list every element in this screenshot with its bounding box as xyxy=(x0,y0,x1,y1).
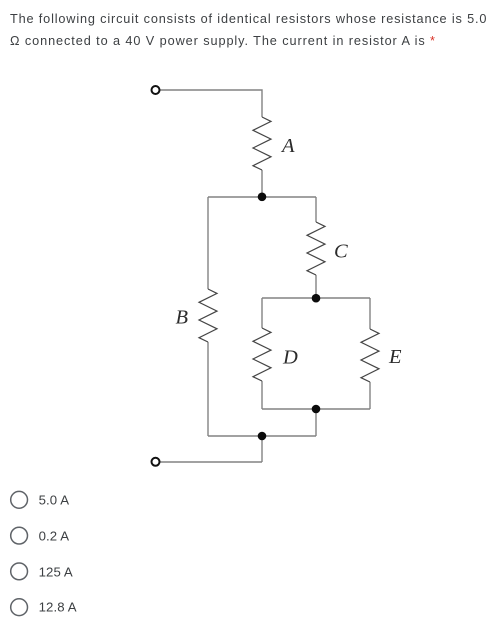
node junction 1 xyxy=(258,193,267,202)
wire resistor B bottom to bottom rail xyxy=(207,342,209,436)
wire resistor C bottom to node2 xyxy=(315,275,317,298)
resistor C xyxy=(307,222,325,275)
svg-text:A: A xyxy=(280,135,295,157)
wire E bottom xyxy=(369,382,371,409)
node junction 2 xyxy=(312,294,321,303)
wire node2 horizontal xyxy=(262,297,370,299)
wire top terminal to corner xyxy=(160,90,262,117)
wire node3 down xyxy=(315,409,317,436)
wire E branch top xyxy=(369,298,371,329)
svg-text:C: C xyxy=(334,241,348,263)
radio option 1 xyxy=(11,491,28,508)
option 3 radio xyxy=(0,560,300,584)
node junction 4 xyxy=(258,432,267,441)
wire to bottom terminal xyxy=(160,461,262,463)
wire left branch down to resistor B xyxy=(207,197,209,289)
option 2 radio xyxy=(0,524,300,548)
svg-text:B: B xyxy=(176,306,189,328)
radio option 4 xyxy=(11,599,28,616)
resistor D xyxy=(253,328,271,381)
wire bottom of DE pair xyxy=(262,408,370,410)
wire D branch top xyxy=(261,298,263,328)
svg-text:E: E xyxy=(388,346,402,368)
option 1 radio xyxy=(0,488,300,512)
terminal top xyxy=(152,86,160,94)
terminal bottom xyxy=(152,458,160,466)
wire right branch down to resistor C xyxy=(315,197,317,222)
wire D bottom xyxy=(261,381,263,409)
wire node4 down to terminal rail xyxy=(261,436,263,462)
wire node1 horizontal xyxy=(208,196,316,198)
resistor B xyxy=(199,289,217,342)
option 4 radio xyxy=(0,595,300,619)
resistor A xyxy=(253,117,271,170)
svg-text:D: D xyxy=(282,346,298,368)
node junction 3 xyxy=(312,405,321,414)
resistor E xyxy=(361,329,379,382)
wire resistor A bottom to node xyxy=(261,170,263,197)
wire bottom rail xyxy=(208,435,316,437)
radio option 3 xyxy=(11,563,28,580)
radio option 2 xyxy=(11,527,28,544)
question text xyxy=(10,9,503,52)
